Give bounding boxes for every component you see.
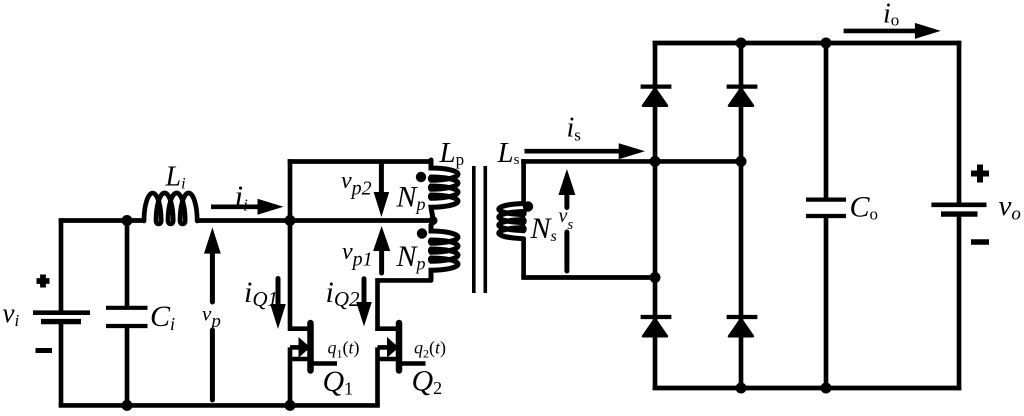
arrow ii bbox=[211, 205, 259, 210]
polarity dot secondary bbox=[523, 201, 533, 211]
transformer core bars bbox=[474, 166, 486, 293]
plus sign vo bbox=[971, 165, 989, 183]
wire Q1 source vertical bbox=[288, 347, 293, 405]
wire left edge bottom bbox=[59, 324, 64, 406]
arrow vp2 bbox=[379, 164, 384, 194]
minus sign vo bbox=[971, 239, 989, 244]
junction dot top rail right leg bbox=[736, 38, 747, 49]
junction dot Q1 source bottom bbox=[285, 400, 296, 411]
svg-text:is: is bbox=[567, 113, 581, 145]
wire bridge right leg bbox=[739, 43, 744, 388]
transistor Q1 source stub bbox=[290, 357, 311, 362]
wire center vertical branch with Q1 drain stub bbox=[290, 159, 311, 329]
diode D3 bottom left bbox=[643, 319, 667, 336]
svg-text:vs: vs bbox=[559, 205, 574, 233]
wire Q2 source vertical bbox=[375, 347, 380, 405]
svg-text:Ns: Ns bbox=[530, 212, 557, 245]
transistor Q2 channel bar bbox=[396, 323, 403, 371]
wire primary top bbox=[288, 159, 431, 164]
svg-text:vp2: vp2 bbox=[341, 168, 372, 200]
arrow iQ2 bbox=[362, 279, 367, 304]
junction dot Ci bottom bbox=[122, 400, 133, 411]
transistor Q2 body arrow bbox=[387, 337, 399, 358]
wire left edge top bbox=[59, 218, 64, 311]
wire top rail right circuit bbox=[653, 41, 962, 46]
arrow vp1 bbox=[373, 226, 390, 251]
svg-text:vo: vo bbox=[999, 190, 1021, 225]
svg-text:vp: vp bbox=[202, 302, 221, 333]
diode D4 bottom right bbox=[729, 319, 753, 336]
wire main bus right of inductor bbox=[196, 218, 433, 223]
svg-text:vi: vi bbox=[3, 298, 20, 330]
wire secondary bottom AC bbox=[521, 275, 655, 280]
transistor Q1 body arrow bbox=[299, 337, 311, 358]
transistor Q2 gate lead bbox=[400, 361, 426, 366]
wire vo right edge bottom bbox=[957, 217, 962, 391]
svg-text:q2(t): q2(t) bbox=[414, 338, 446, 361]
battery vi short plate bbox=[41, 319, 81, 324]
arrow vs bbox=[558, 169, 575, 195]
junction dot AC2 left leg bbox=[650, 272, 661, 283]
wire secondary left side bottom bbox=[521, 239, 526, 278]
svg-text:iQ2: iQ2 bbox=[326, 276, 361, 311]
arrow vp bbox=[204, 227, 221, 253]
transistor Q1 gate lead bbox=[311, 361, 337, 366]
junction dot AC1 left leg bbox=[650, 156, 661, 167]
transistor Q2 body stub bbox=[378, 345, 388, 350]
junction dot center branch top bbox=[285, 215, 296, 226]
transistor Q1 body stub bbox=[290, 345, 299, 350]
wire bridge left leg bbox=[653, 41, 658, 390]
wire vo right edge top bbox=[957, 41, 962, 203]
svg-text:Np: Np bbox=[396, 181, 426, 215]
capacitor Ci bottom plate bbox=[106, 324, 148, 328]
capacitor Co top plate bbox=[806, 198, 846, 202]
wire bottom rail left circuit bbox=[59, 403, 380, 408]
minus sign vi bbox=[36, 348, 53, 353]
wire secondary left side top bbox=[521, 159, 526, 203]
wire Co branch top bbox=[824, 43, 829, 198]
wire secondary top AC bbox=[521, 159, 741, 164]
svg-text:Lp: Lp bbox=[439, 137, 465, 169]
polarity dot upper primary bbox=[416, 172, 426, 182]
svg-text:Q2: Q2 bbox=[412, 365, 443, 399]
diode D2 top right bbox=[729, 88, 753, 105]
svg-text:Np: Np bbox=[396, 240, 426, 274]
battery vo long plate bbox=[931, 203, 986, 208]
svg-text:Co: Co bbox=[850, 191, 879, 224]
svg-text:Li: Li bbox=[165, 162, 186, 193]
junction dot bottom rail right leg bbox=[736, 383, 747, 394]
svg-text:Ci: Ci bbox=[150, 300, 175, 334]
transistor Q1 channel bar bbox=[307, 323, 314, 371]
svg-text:Q1: Q1 bbox=[323, 365, 354, 399]
junction dot center tap bbox=[429, 216, 438, 225]
inductor Li bbox=[144, 193, 197, 224]
junction dot AC1 right leg bbox=[736, 156, 747, 167]
arrow io bbox=[844, 29, 916, 34]
transistor Q2 source stub bbox=[378, 357, 400, 362]
diode D1 top left bbox=[643, 88, 667, 105]
svg-text:q1(t): q1(t) bbox=[328, 338, 360, 361]
svg-text:io: io bbox=[883, 0, 899, 30]
wire bottom rail right circuit bbox=[653, 386, 962, 391]
plus sign vi bbox=[37, 275, 50, 288]
capacitor Co bottom plate bbox=[806, 214, 846, 218]
arrow iQ1 bbox=[276, 279, 281, 307]
wire Ci branch top bbox=[125, 221, 130, 307]
svg-text:vp1: vp1 bbox=[342, 239, 373, 271]
svg-text:ii: ii bbox=[235, 179, 249, 215]
wire main bus left segment bbox=[59, 218, 145, 223]
junction dot bottom rail Co bbox=[821, 383, 832, 394]
wire Co branch bottom bbox=[824, 218, 829, 388]
battery vo short plate bbox=[941, 211, 978, 216]
svg-text:Ls: Ls bbox=[497, 137, 520, 169]
capacitor Ci top plate bbox=[106, 306, 148, 310]
transformer primary lower winding bbox=[430, 222, 458, 280]
wire Ci branch bottom bbox=[125, 328, 130, 405]
junction dot top rail Co bbox=[821, 38, 832, 49]
arrow is bbox=[525, 149, 621, 154]
transformer secondary winding Ns bbox=[499, 204, 524, 239]
polarity dot lower primary bbox=[417, 228, 427, 238]
battery vi long plate bbox=[33, 310, 90, 315]
junction dot Ci top bbox=[122, 215, 133, 226]
transformer primary upper winding bbox=[430, 160, 458, 219]
svg-text:iQ1: iQ1 bbox=[244, 276, 278, 311]
wire primary bottom with Q2 drain stub bbox=[378, 280, 432, 328]
